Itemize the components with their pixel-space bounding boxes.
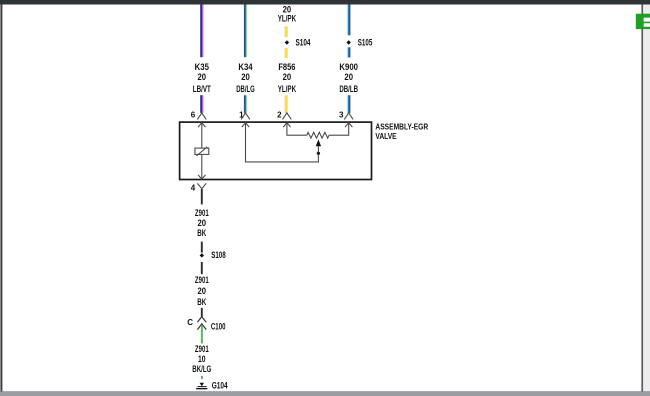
svg-text:20: 20 [344, 72, 353, 83]
bottom grey bar [0, 390, 650, 393]
wire F856 segment above splice S104 (YL/PK) [285, 26, 288, 37]
svg-text:Z901: Z901 [195, 275, 209, 286]
wire K900 upper segment (DB/LB) [347, 5, 350, 36]
splice S108 [200, 253, 204, 257]
top dark bar [0, 0, 650, 5]
wire K34 stub above connector [244, 95, 247, 113]
wire resistor to pin 3 [329, 123, 349, 136]
svg-text:S105: S105 [358, 37, 373, 47]
right vertical divider [641, 5, 643, 392]
svg-text:DB/LG: DB/LG [236, 84, 255, 95]
label Z901 10 BK/LG [192, 344, 211, 375]
wire segment above C100 [201, 308, 203, 317]
svg-text:S108: S108 [211, 250, 226, 260]
svg-text:20: 20 [283, 72, 292, 83]
svg-text:YL/PK: YL/PK [278, 84, 296, 95]
pin 2 entry arrow [283, 123, 290, 128]
connector fork pin 4 (below box) [197, 183, 206, 191]
pin 1 entry arrow [242, 123, 249, 128]
EGR valve assembly box [180, 122, 372, 179]
svg-text:C100: C100 [211, 322, 226, 332]
svg-text:LB/VT: LB/VT [193, 84, 211, 95]
splice S104 [285, 40, 289, 44]
connector C100 male half (arrow) [197, 324, 206, 330]
pin 3 entry arrow [345, 123, 352, 128]
svg-text:20: 20 [198, 286, 207, 297]
wire pin 1 to wiper [246, 123, 319, 162]
svg-text:2: 2 [277, 111, 282, 120]
wiper shaft [317, 146, 319, 152]
svg-text:4: 4 [191, 184, 196, 193]
wire segment below S108 [201, 262, 203, 274]
connector fork pin 1 [241, 113, 250, 120]
label K35 20 LB/VT [193, 62, 211, 95]
ground G104 symbol [196, 383, 207, 390]
svg-text:DB/LB: DB/LB [339, 84, 358, 95]
svg-text:3: 3 [339, 111, 344, 120]
right scrollbar strip [643, 5, 650, 392]
svg-text:BK/LG: BK/LG [192, 364, 211, 375]
splice S105 [347, 40, 351, 44]
svg-text:S104: S104 [296, 37, 311, 47]
wire K34 upper segment (DB/LG) [244, 5, 247, 58]
solenoid coil (EGR valve) [195, 147, 209, 156]
connector C100 female half [197, 317, 206, 323]
wire pin 2 to resistor [287, 123, 307, 136]
connector fork pin 2 [283, 113, 292, 120]
svg-text:6: 6 [191, 111, 196, 120]
label K900 20 DB/LB [339, 62, 358, 95]
svg-text:1: 1 [239, 111, 244, 120]
label F856 20 YL/PK [278, 62, 296, 95]
left window border [0, 5, 2, 392]
pin 4 exit arrow [198, 175, 205, 179]
wire green segment below C100 [201, 325, 203, 343]
wire K900 segment below splice S105 [347, 47, 350, 57]
connector fork pin 3 [344, 113, 353, 120]
svg-text:BK: BK [197, 228, 206, 239]
svg-text:YL/PK: YL/PK [278, 13, 296, 24]
label K34 20 DB/LG [236, 62, 255, 95]
resistor (EGR position sensor) [307, 132, 329, 138]
wire pin6 to solenoid [201, 123, 203, 149]
wire solenoid to pin 4 [201, 154, 203, 179]
wire green tick above ground [201, 376, 203, 379]
node wiper junction [317, 152, 320, 155]
print button (green, clipped at right edge) [636, 14, 650, 29]
wire K35 stub above connector [200, 95, 203, 113]
wire K900 stub above connector [347, 95, 350, 113]
svg-text:G104: G104 [212, 381, 228, 391]
svg-text:ASSEMBLY-EGR: ASSEMBLY-EGR [375, 121, 428, 131]
wiper arrow [316, 139, 321, 146]
svg-text:BK: BK [197, 297, 206, 308]
svg-text:20: 20 [198, 72, 207, 83]
wire Z901 segment (BK) below pin 4 [201, 189, 203, 204]
label Z901 20 BK (second) [195, 275, 209, 308]
wire K35 upper segment (LB/VT) [200, 5, 203, 58]
svg-text:C: C [187, 318, 193, 327]
pin 6 entry arrow [198, 123, 205, 128]
wire segment above S108 [201, 242, 203, 253]
connector fork pin 6 [197, 113, 206, 120]
label Z901 20 BK [195, 208, 209, 239]
label ASSEMBLY-EGR VALVE [375, 121, 428, 141]
svg-text:VALVE: VALVE [375, 131, 397, 141]
svg-text:20: 20 [241, 72, 250, 83]
wire F856 stub above connector [285, 95, 288, 113]
wire F856 segment below splice S104 [285, 48, 288, 58]
